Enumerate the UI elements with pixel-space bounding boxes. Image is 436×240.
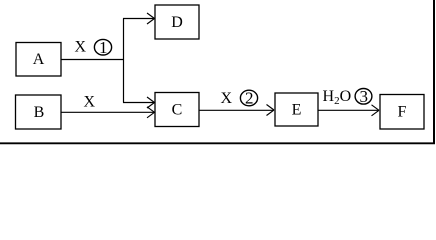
arrow C to E bbox=[199, 105, 274, 116]
svg-text:X: X bbox=[84, 94, 96, 111]
label X (on A line) bbox=[75, 39, 87, 56]
wire branch vertical bbox=[123, 19, 125, 103]
svg-text:C: C bbox=[172, 102, 183, 119]
label X (on C-E line) bbox=[221, 90, 233, 107]
box D bbox=[155, 5, 199, 39]
arrow branch to D bbox=[123, 13, 155, 24]
svg-text:F: F bbox=[398, 104, 407, 121]
svg-text:2: 2 bbox=[245, 89, 254, 108]
right border line bbox=[433, 0, 435, 144]
box A bbox=[16, 43, 61, 77]
svg-text:E: E bbox=[292, 102, 302, 119]
box F bbox=[380, 95, 424, 130]
label H2O bbox=[323, 88, 352, 107]
label circled 3 bbox=[355, 87, 372, 106]
box C bbox=[155, 93, 199, 127]
svg-text:X: X bbox=[75, 39, 87, 56]
svg-text:D: D bbox=[171, 14, 183, 31]
box B bbox=[16, 95, 62, 129]
svg-text:3: 3 bbox=[359, 87, 368, 106]
svg-text:1: 1 bbox=[99, 38, 108, 57]
svg-text:A: A bbox=[33, 51, 45, 68]
svg-text:X: X bbox=[221, 90, 233, 107]
arrow B to C bbox=[61, 107, 155, 118]
wire A to branch bbox=[61, 59, 124, 61]
arrow branch to C bbox=[123, 97, 155, 108]
box E bbox=[275, 93, 318, 126]
bottom border line bbox=[0, 142, 435, 144]
arrow E to F bbox=[318, 105, 379, 116]
label circled 2 bbox=[240, 89, 257, 108]
label X (on B line) bbox=[84, 94, 96, 111]
label circled 1 bbox=[94, 38, 111, 57]
svg-text:B: B bbox=[34, 104, 45, 121]
